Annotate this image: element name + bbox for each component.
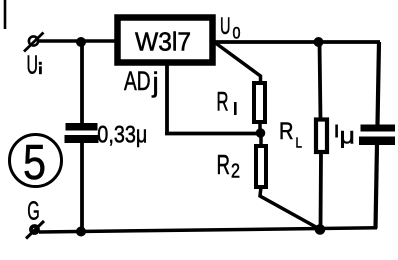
label R2: [217, 149, 241, 183]
figure number 5: [10, 135, 62, 191]
svg-text:U: U: [220, 13, 231, 40]
svg-text:R: R: [217, 149, 231, 180]
wire node A down to capacitor C1: [80, 41, 84, 124]
wire right edge: [376, 42, 380, 229]
svg-text:U: U: [27, 50, 39, 80]
node D junction R1/R2: [256, 128, 266, 138]
wire diagonal output to R1: [216, 43, 261, 82]
svg-text:R: R: [279, 118, 294, 145]
svg-text:5: 5: [23, 136, 46, 190]
capacitor C2 1u: [359, 125, 395, 146]
wire R1 to node D: [258, 122, 262, 133]
svg-text:μ: μ: [340, 122, 356, 148]
label ADj: [124, 66, 159, 98]
svg-text:0: 0: [233, 25, 241, 43]
wire node D to R2: [259, 133, 263, 146]
terminal Ui: [24, 33, 44, 52]
wire RL down to node C: [319, 152, 323, 230]
terminal G: [26, 221, 44, 239]
page edge mark: [4, 0, 7, 29]
node A junction: [76, 37, 86, 47]
svg-text:2: 2: [231, 161, 240, 183]
label Ui: [27, 50, 42, 80]
svg-text:W3l7: W3l7: [135, 27, 191, 57]
label 1u: [335, 122, 355, 148]
wire output rail (top): [213, 40, 380, 44]
svg-text:G: G: [27, 196, 40, 226]
regulator U1 W317 box: [118, 18, 213, 63]
wire input to node A: [38, 39, 117, 43]
svg-text:0,33μ: 0,33μ: [97, 122, 147, 149]
node B junction: [314, 37, 324, 47]
resistor R1: [254, 83, 265, 122]
resistor R2: [256, 146, 266, 187]
svg-text:AD: AD: [124, 66, 151, 96]
node C junction: [315, 224, 326, 235]
capacitor C1 0.33u: [65, 123, 99, 143]
wire R2 diagonal to node C: [260, 187, 320, 229]
wire capacitor C1 to bottom rail: [80, 143, 84, 232]
wire ADJ pin down and right: [165, 64, 258, 134]
label R1: [217, 87, 237, 117]
wire node B down to RL: [320, 42, 321, 120]
wire bottom rail: [39, 228, 377, 232]
svg-text:j: j: [152, 67, 159, 98]
label RL: [279, 118, 302, 152]
resistor RL: [316, 120, 327, 153]
label U0: [220, 13, 241, 43]
svg-text:R: R: [217, 87, 229, 117]
svg-text:L: L: [296, 135, 303, 152]
node bottom-left junction: [76, 227, 86, 237]
